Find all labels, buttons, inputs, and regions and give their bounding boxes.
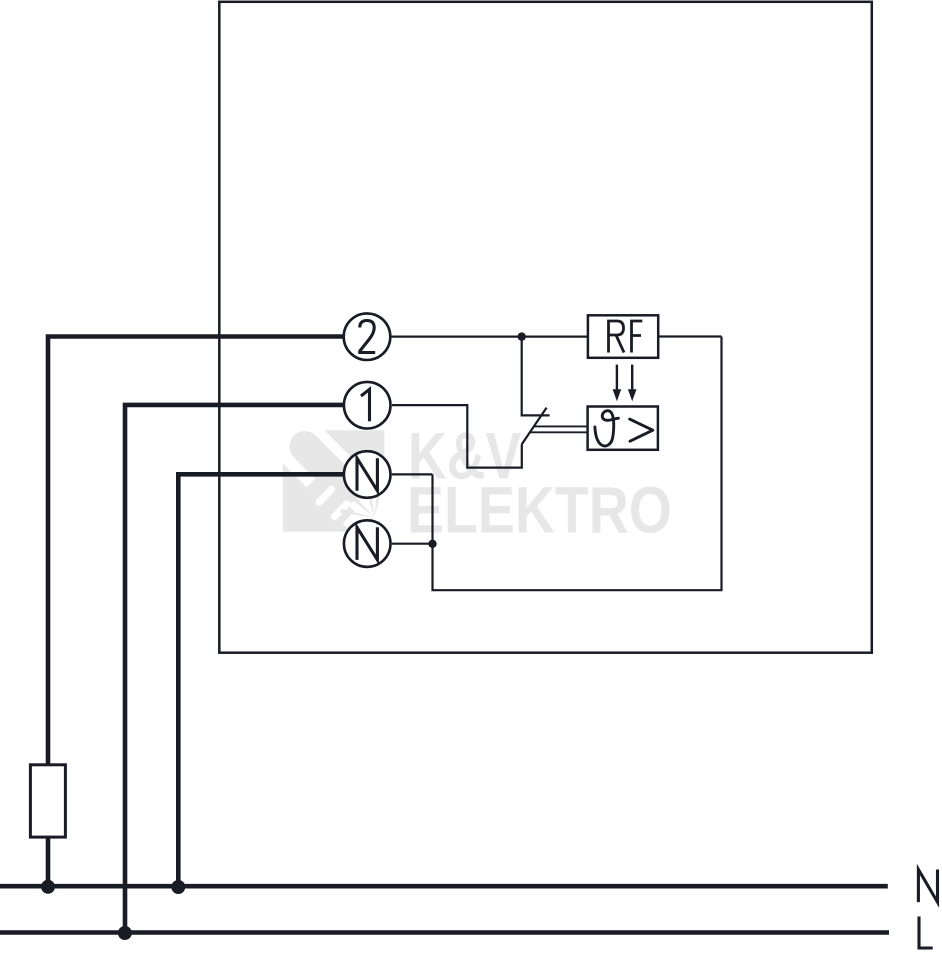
junction dot N2 <box>428 540 436 548</box>
wire N1 to loop <box>392 473 433 475</box>
wire N2 to loop <box>392 543 433 545</box>
RF label F <box>632 321 643 353</box>
thick mains wire to terminal N <box>178 474 343 886</box>
arrow 1 RF to thermostat <box>613 365 622 402</box>
thick mains wire to terminal 1 <box>125 405 343 933</box>
watermark logo <box>283 430 385 532</box>
bus line L <box>0 930 889 935</box>
bus line N <box>0 884 888 889</box>
resistor body <box>30 765 65 837</box>
RF box <box>588 315 658 358</box>
RF label R <box>609 321 625 353</box>
terminal circle 1 <box>344 382 391 429</box>
terminal circle N1 <box>344 451 391 498</box>
terminal circle N2 <box>344 520 391 567</box>
wire below resistor <box>46 837 51 886</box>
digit 2 <box>360 321 375 353</box>
letter N1 <box>357 458 377 491</box>
wire RF to right <box>658 335 721 337</box>
right loop wire <box>433 337 722 591</box>
wire terminal1 to switch <box>392 405 522 468</box>
device outline box <box>219 2 872 653</box>
thick mains wire to terminal 2 <box>48 337 343 765</box>
label N (bus) <box>918 870 937 903</box>
linkage double line <box>530 426 588 432</box>
logo white notch dash 2 <box>335 504 347 517</box>
thermostat box <box>588 407 658 450</box>
svg-text:ELEKTRO: ELEKTRO <box>407 473 672 546</box>
label L (bus) <box>919 917 933 949</box>
thin wire terminal2 to RF <box>391 336 588 338</box>
logo bottom-left triangle <box>283 464 351 532</box>
junction dot wire1-L <box>118 926 132 940</box>
junction dot wireN-N <box>171 880 185 894</box>
greater-than symbol <box>630 419 653 441</box>
logo top-right triangle <box>324 430 384 490</box>
logo spark rays <box>341 490 382 531</box>
logo white notch dash 1 <box>319 489 331 502</box>
theta glyph <box>595 411 619 446</box>
letter N2 <box>357 527 377 560</box>
switch blade <box>522 408 547 445</box>
logo plug capsule <box>305 447 346 489</box>
arrow 2 RF to thermostat <box>628 365 637 402</box>
junction node above switch <box>518 332 526 340</box>
switch fixed contact <box>522 337 550 416</box>
digit 1 <box>361 389 370 421</box>
junction dot resistor-N <box>41 880 55 894</box>
logo prong bump <box>307 476 355 524</box>
terminal circle 2 <box>344 313 391 360</box>
